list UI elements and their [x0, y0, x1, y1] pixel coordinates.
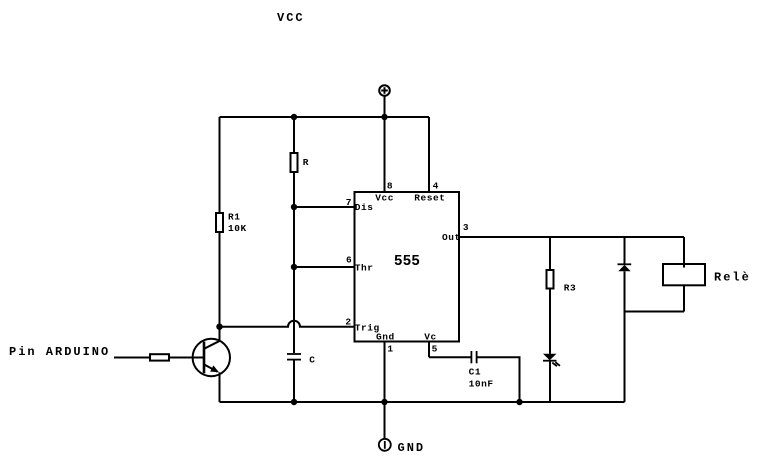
wire Out to relay	[683, 237, 685, 268]
wire Trig line with hop	[220, 321, 355, 327]
svg-text:Vc: Vc	[424, 332, 437, 343]
resistor R	[291, 153, 298, 172]
svg-text:C: C	[309, 354, 315, 365]
junction Dis	[291, 204, 297, 210]
wire Vc to C1	[429, 356, 471, 358]
wire Gnd pin 1	[384, 342, 386, 402]
wire Out to R3	[549, 237, 551, 270]
junction Thr	[291, 264, 297, 270]
svg-text:5: 5	[432, 344, 438, 355]
svg-text:R3: R3	[564, 283, 577, 294]
wire emitter to ground rail	[219, 372, 221, 402]
wire Dis (pin 7)	[294, 206, 355, 208]
wire Reset pin 4	[428, 117, 430, 192]
wire left branch top	[219, 117, 221, 213]
wire R branch top	[293, 117, 295, 153]
resistor R1	[216, 213, 223, 232]
wire input to base resistor	[114, 357, 150, 359]
junction ground C1	[516, 399, 522, 405]
resistor R2 base	[150, 354, 169, 360]
svg-text:555: 555	[394, 254, 420, 270]
ground symbol	[379, 402, 391, 451]
svg-text:7: 7	[346, 197, 352, 208]
svg-text:6: 6	[346, 255, 352, 266]
svg-text:8: 8	[387, 180, 393, 191]
junction collector node	[216, 324, 222, 330]
svg-text:3: 3	[463, 222, 469, 233]
svg-text:R: R	[303, 157, 309, 168]
junction top rail R	[291, 114, 297, 120]
LED D1	[543, 354, 560, 366]
wire diode to relay bottom	[624, 271, 626, 311]
op-amp U1 555 box	[355, 192, 460, 342]
svg-text:10K: 10K	[228, 223, 247, 234]
wire C1 to ground rail	[477, 357, 520, 402]
svg-text:10nF: 10nF	[469, 378, 494, 389]
VCC supply symbol	[379, 85, 390, 96]
capacitor C1	[471, 351, 476, 363]
svg-text:2: 2	[345, 317, 351, 328]
svg-text:C1: C1	[469, 366, 482, 377]
svg-text:4: 4	[433, 181, 439, 192]
wire collector	[219, 327, 221, 341]
svg-text:Dis: Dis	[355, 202, 374, 213]
wire top rail	[220, 116, 430, 118]
wire diode branch to ground rail	[624, 312, 626, 403]
wire ground rail	[220, 401, 625, 403]
wire R3 to LED	[549, 289, 551, 354]
diode D2 flyback	[618, 264, 632, 271]
wire R to capacitor C	[293, 172, 295, 353]
wire LED to ground rail	[549, 362, 551, 403]
svg-text:Relè: Relè	[714, 271, 751, 285]
wire relay to diode	[625, 311, 685, 313]
wire Out pin 3	[459, 236, 684, 238]
svg-text:Reset: Reset	[414, 192, 445, 203]
wire C to ground rail	[293, 360, 295, 402]
svg-text:GND: GND	[398, 441, 426, 455]
wire Out to diode	[624, 237, 626, 264]
svg-text:Out: Out	[442, 232, 461, 243]
resistor R3	[547, 270, 554, 289]
relay K1	[663, 264, 705, 285]
junction ground C	[291, 399, 297, 405]
wire supply to rail	[384, 96, 386, 117]
wire Thr (pin 6)	[294, 266, 355, 268]
capacitor C	[287, 354, 301, 360]
svg-text:1: 1	[387, 344, 393, 355]
svg-text:VCC: VCC	[277, 11, 305, 25]
junction ground Gnd pin	[381, 399, 387, 405]
svg-text:Gnd: Gnd	[376, 332, 395, 343]
transistor Q1	[193, 339, 230, 376]
wire R1 to collector node	[219, 232, 221, 327]
svg-text:Thr: Thr	[355, 262, 374, 273]
wire Vcc pin 8	[384, 117, 386, 192]
svg-text:Vcc: Vcc	[375, 192, 394, 203]
wire base resistor to base	[169, 357, 204, 359]
wire relay bottom	[683, 285, 685, 311]
svg-text:R1: R1	[228, 211, 241, 222]
svg-text:Pin ARDUINO: Pin ARDUINO	[9, 345, 110, 359]
wire Vc pin 5	[428, 342, 430, 358]
junction top rail Vcc	[381, 114, 387, 120]
